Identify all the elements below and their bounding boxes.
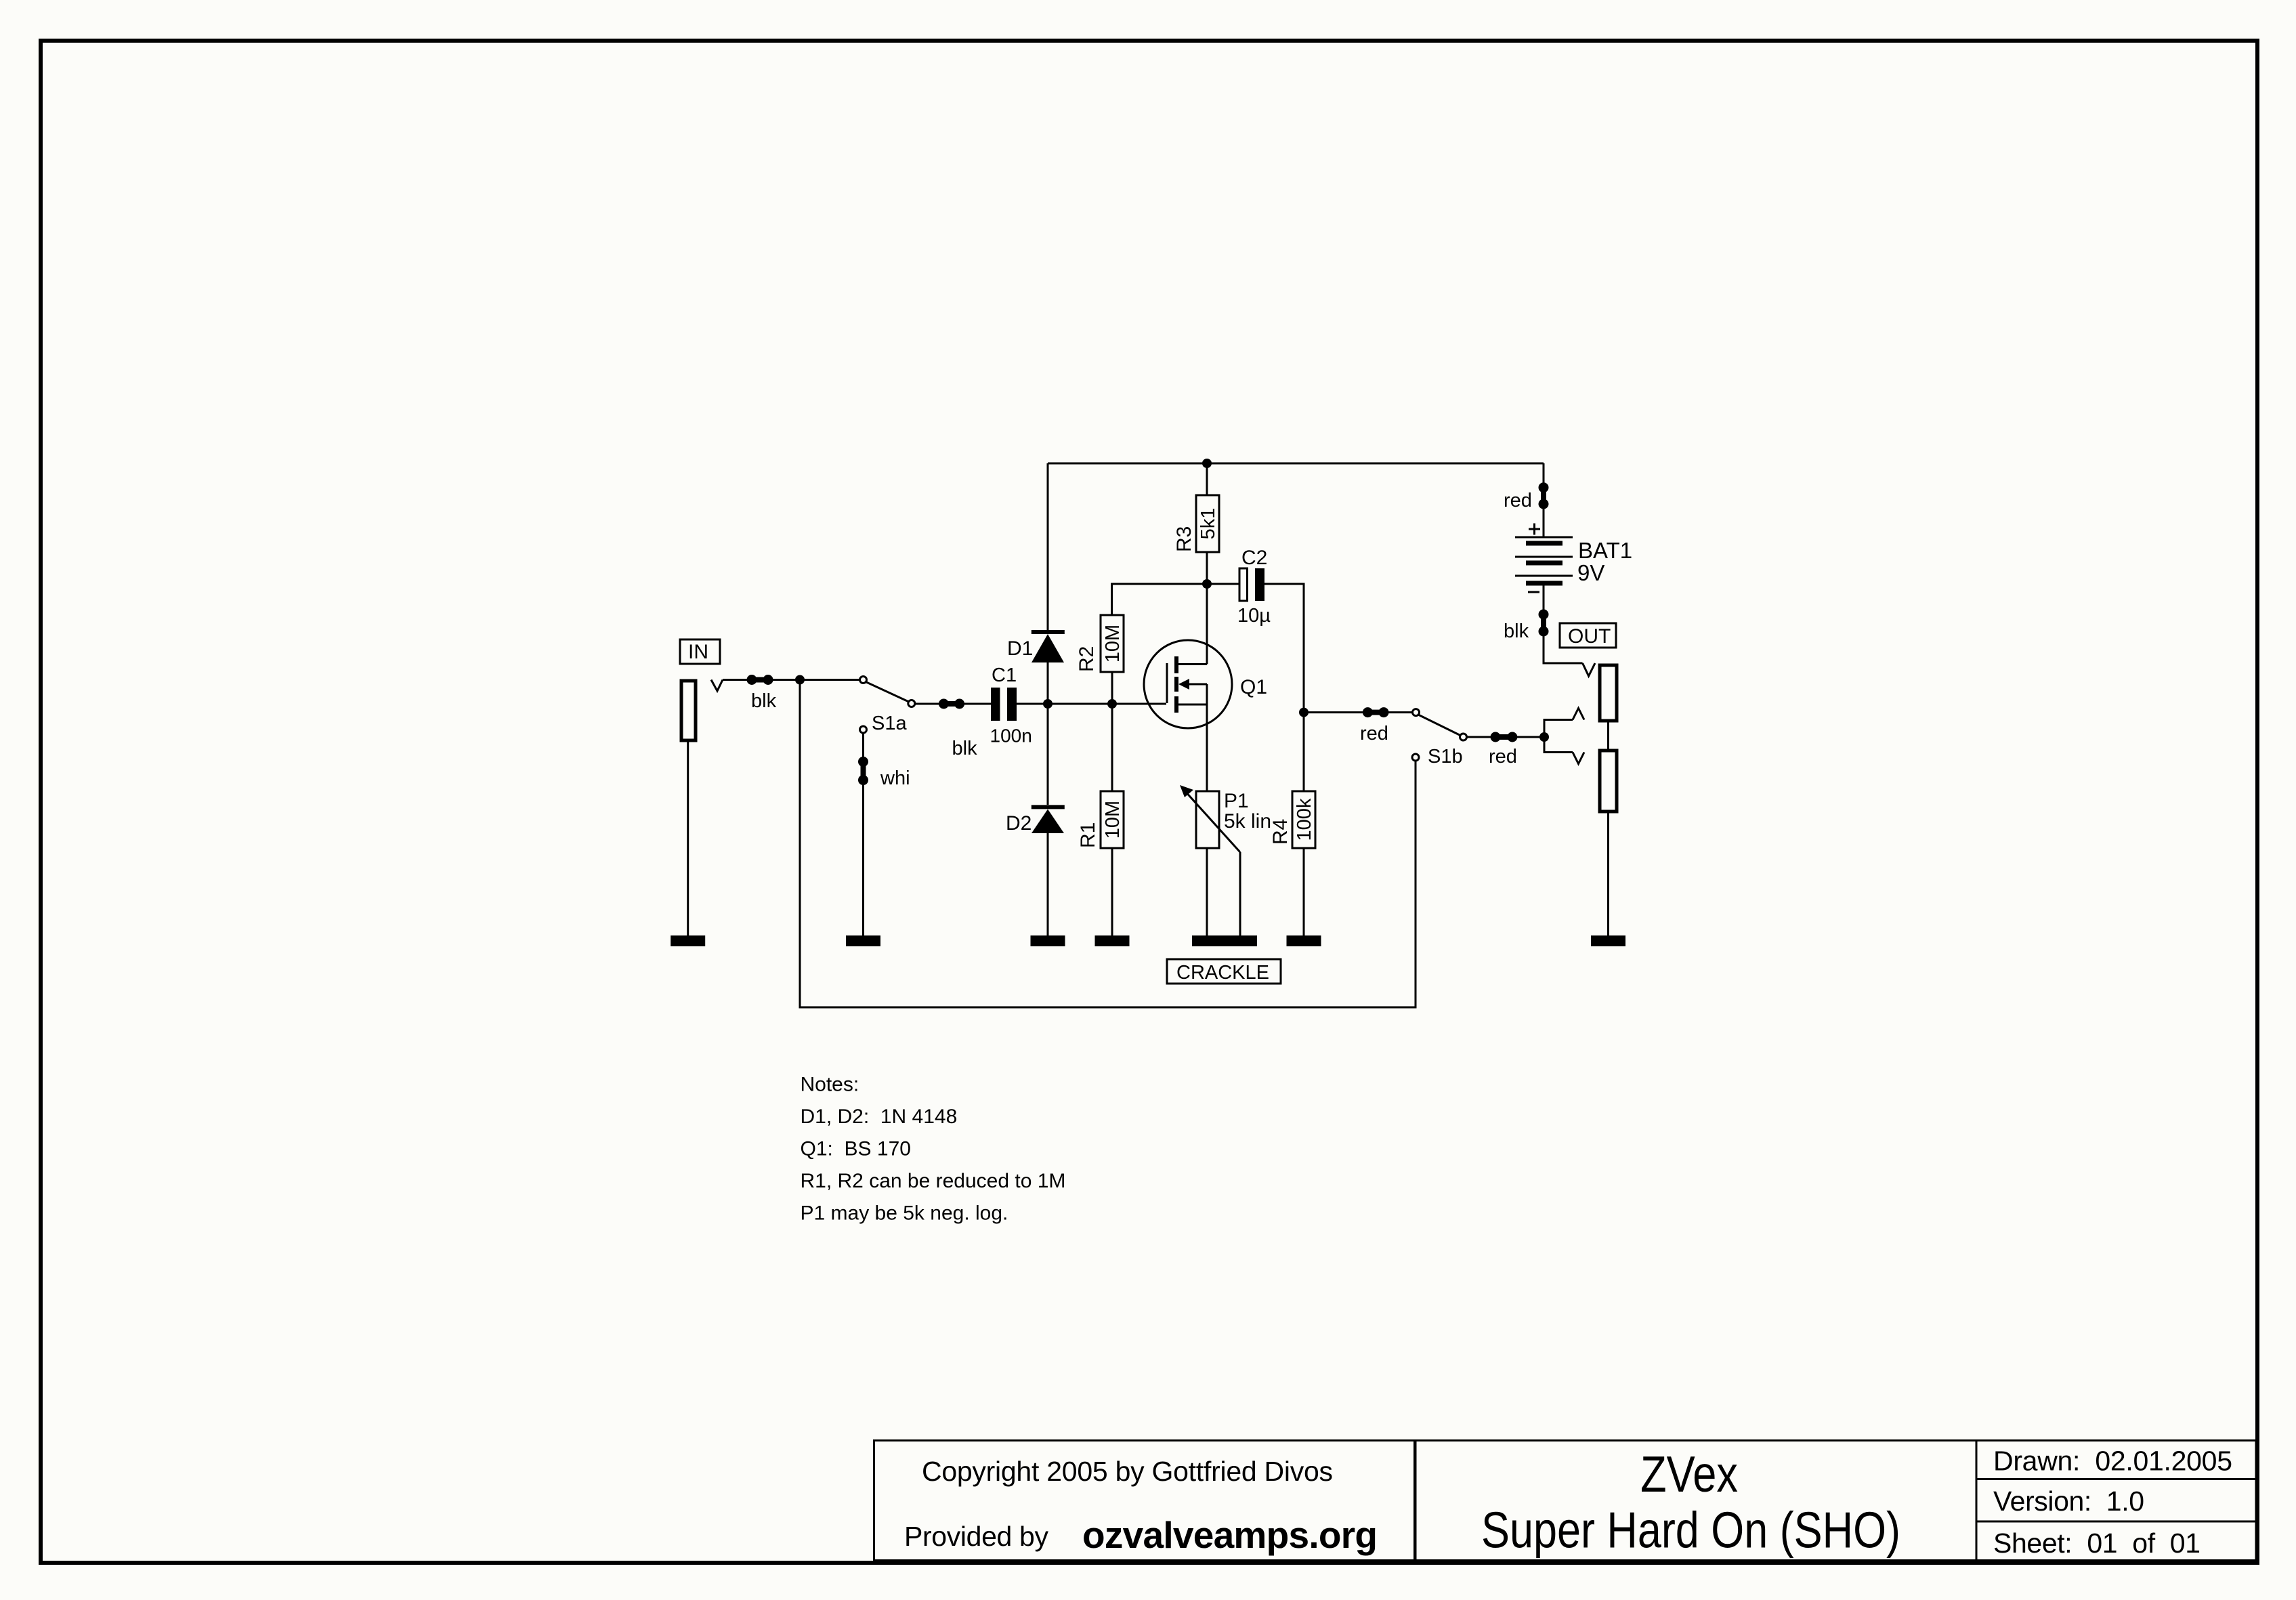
node rail/R3 junction <box>1202 459 1212 468</box>
svg-text:OUT: OUT <box>1568 625 1611 648</box>
wire junction to C2 <box>1207 583 1239 585</box>
diode D1 <box>1032 632 1065 662</box>
node output ring junction <box>1539 732 1549 742</box>
svg-text:100n: 100n <box>990 725 1032 746</box>
wire ring node to upper contact <box>1544 720 1573 738</box>
IN label <box>680 639 720 664</box>
svg-text:R1, R2 can be reduced to 1M: R1, R2 can be reduced to 1M <box>801 1170 1066 1192</box>
battery BAT1 <box>1515 537 1573 583</box>
ground output jack <box>1591 935 1625 946</box>
svg-text:P1: P1 <box>1224 790 1249 812</box>
title block left box <box>874 1441 1415 1561</box>
splice blk input <box>747 675 773 685</box>
switch S1b blade end contact <box>1460 734 1467 740</box>
output jack body lower <box>1600 751 1617 812</box>
svg-text:Provided by: Provided by <box>904 1521 1049 1552</box>
output jack ring contact upper <box>1573 709 1584 720</box>
ground input jack <box>671 935 705 946</box>
wire S1b to ring node <box>1468 736 1545 738</box>
capacitor C2 <box>1239 568 1264 601</box>
svg-text:BAT1: BAT1 <box>1578 538 1632 563</box>
wire output jack to ground <box>1607 812 1609 935</box>
resistor R2 <box>1101 615 1124 672</box>
node C1/D1/D2 junction <box>1043 699 1053 709</box>
wire R2 top <box>1112 584 1207 615</box>
wire D1 cathode to rail <box>1047 463 1049 630</box>
svg-text:Drawn: 02.01.2005: Drawn: 02.01.2005 <box>1993 1446 2232 1477</box>
svg-text:R1: R1 <box>1077 822 1099 848</box>
svg-text:IN: IN <box>688 641 708 663</box>
resistor R1 <box>1101 791 1124 848</box>
svg-text:C1: C1 <box>992 665 1017 686</box>
OUT label <box>1560 623 1616 648</box>
node R2/R1/gate junction <box>1107 699 1117 709</box>
splice whi <box>858 757 868 785</box>
svg-text:Q1: BS 170: Q1: BS 170 <box>801 1138 911 1160</box>
wire S1a throw to ground <box>862 734 864 935</box>
capacitor C1 <box>991 688 1017 721</box>
svg-text:D1: D1 <box>1007 637 1033 660</box>
svg-text:Q1: Q1 <box>1240 676 1267 698</box>
CRACKLE label <box>1167 959 1281 984</box>
resistor R4 <box>1292 791 1315 848</box>
svg-text:ZVex: ZVex <box>1640 1446 1738 1502</box>
svg-text:R4: R4 <box>1269 819 1292 845</box>
wire P1 wiper to ground <box>1239 852 1241 935</box>
svg-text:5k lin: 5k lin <box>1224 810 1271 833</box>
svg-text:Version: 1.0: Version: 1.0 <box>1993 1486 2144 1517</box>
output jack body upper <box>1600 665 1617 721</box>
svg-text:blk: blk <box>952 738 978 759</box>
wire D2 anode <box>1047 704 1049 805</box>
ground D2 <box>1031 935 1065 946</box>
notes text <box>801 1074 1066 1225</box>
input jack J1 body <box>681 681 696 740</box>
splice blk battery <box>1539 610 1549 637</box>
wire R3 bottom <box>1206 552 1208 584</box>
title block middle box <box>1416 1441 1976 1561</box>
svg-text:10M: 10M <box>1102 625 1124 662</box>
switch S1b blade <box>1418 715 1461 736</box>
svg-text:C2: C2 <box>1241 547 1267 569</box>
svg-text:ozvalveamps.org: ozvalveamps.org <box>1082 1514 1378 1556</box>
wire D1 anode <box>1047 662 1049 704</box>
title block row divider 1 <box>1976 1478 2256 1480</box>
svg-text:D2: D2 <box>1006 812 1032 835</box>
switch S1a blade end contact <box>908 700 915 707</box>
wire bypass left vertical + bottom + right vertical <box>800 680 1416 1008</box>
svg-text:blk: blk <box>751 690 777 712</box>
svg-text:5k1: 5k1 <box>1197 508 1219 540</box>
svg-text:D1, D2: 1N 4148: D1, D2: 1N 4148 <box>801 1106 958 1128</box>
switch S1a pivot contact <box>860 677 867 683</box>
wire ring node to lower contact <box>1544 737 1573 753</box>
svg-text:blk: blk <box>1504 620 1529 642</box>
wire R4 bottom <box>1303 848 1305 935</box>
node C2/R4/S1b junction <box>1299 708 1309 717</box>
power rail top <box>1048 463 1544 465</box>
ground R4 <box>1287 935 1321 946</box>
wire R4 top <box>1303 713 1305 791</box>
wire C2 to R4 top <box>1264 584 1304 713</box>
ground S1a <box>846 935 880 946</box>
splice red battery <box>1539 482 1549 509</box>
wire S1a to C1 <box>915 703 991 705</box>
svg-text:Sheet: 01 of 01: Sheet: 01 of 01 <box>1993 1528 2201 1559</box>
output jack tip contact <box>1583 663 1595 676</box>
wire jack sections <box>1607 721 1609 751</box>
svg-text:red: red <box>1489 746 1517 767</box>
svg-text:R2: R2 <box>1076 646 1098 672</box>
switch S1a blade <box>865 681 910 702</box>
title block right box <box>1976 1441 2256 1561</box>
svg-text:S1a: S1a <box>872 713 907 734</box>
svg-text:10M: 10M <box>1102 801 1124 839</box>
transistor Q1 <box>1144 584 1232 791</box>
svg-text:S1b: S1b <box>1428 746 1463 767</box>
wire R2 bottom <box>1111 672 1113 704</box>
svg-text:red: red <box>1360 723 1388 744</box>
battery plus sign <box>1529 524 1540 535</box>
svg-text:whi: whi <box>880 767 910 789</box>
splice red right <box>1491 732 1518 742</box>
ground P1 <box>1192 935 1257 946</box>
wire input jack sleeve to ground <box>687 740 689 935</box>
wire R3 top <box>1206 463 1208 495</box>
switch S1b pivot contact <box>1413 709 1420 716</box>
svg-text:Super Hard On (SHO): Super Hard On (SHO) <box>1481 1502 1900 1559</box>
title block row divider 2 <box>1976 1521 2256 1523</box>
svg-text:9V: 9V <box>1577 560 1604 585</box>
wire IN tip to S1a pivot <box>723 679 864 681</box>
input jack tip contact <box>711 680 723 692</box>
switch S1a lower throw contact <box>860 726 867 733</box>
node drain junction <box>1202 579 1212 589</box>
wire rail to battery <box>1543 463 1545 537</box>
wire D2 to ground <box>1047 833 1049 935</box>
wire R1 bottom <box>1111 848 1113 935</box>
splice blk C1 <box>939 699 964 709</box>
wire battery minus down <box>1544 585 1583 663</box>
node bypass tap junction <box>795 675 805 685</box>
resistor R3 <box>1196 495 1219 552</box>
wire junction to S1b pivot <box>1304 711 1412 713</box>
svg-text:100k: 100k <box>1294 798 1315 841</box>
svg-text:10µ: 10µ <box>1237 605 1271 627</box>
svg-text:R3: R3 <box>1173 526 1195 552</box>
ground R1 <box>1095 935 1130 946</box>
svg-text:Copyright 2005 by Gottfried Di: Copyright 2005 by Gottfried Divos <box>922 1456 1333 1487</box>
battery minus sign <box>1528 591 1539 593</box>
wire R1 top <box>1111 704 1113 791</box>
output jack ring contact lower <box>1573 753 1584 764</box>
svg-text:CRACKLE: CRACKLE <box>1176 962 1269 984</box>
svg-text:red: red <box>1504 490 1532 511</box>
switch S1b lower throw contact <box>1412 754 1419 761</box>
wire P1 bottom to ground <box>1206 848 1208 935</box>
potentiometer P1 <box>1180 785 1240 852</box>
wire C1 to gate <box>1017 703 1166 705</box>
diode D2 <box>1032 807 1065 833</box>
svg-text:Notes:: Notes: <box>801 1074 859 1096</box>
svg-text:P1 may be 5k neg. log.: P1 may be 5k neg. log. <box>801 1202 1008 1225</box>
splice red left <box>1363 707 1389 717</box>
